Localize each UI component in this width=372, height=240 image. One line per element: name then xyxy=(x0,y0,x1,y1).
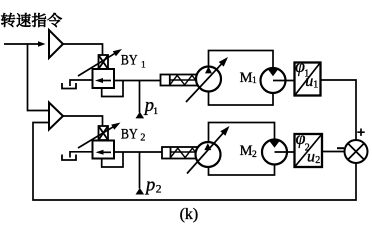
wire branch to amp2 xyxy=(28,43,50,110)
tank BY1 xyxy=(62,83,76,89)
wire A1 output to BY1 solenoid xyxy=(63,44,103,55)
wire BY2 output main line xyxy=(114,151,162,153)
shaft M2 to sensor xyxy=(275,151,295,153)
svg-text:p: p xyxy=(144,175,155,195)
motor M2 xyxy=(262,140,287,165)
sensor phi2/u2 xyxy=(295,134,323,167)
svg-text:1: 1 xyxy=(252,75,257,85)
arrow inside BY2 xyxy=(102,151,112,153)
svg-text:u: u xyxy=(307,149,315,166)
stroking cylinder 1 xyxy=(161,75,198,86)
svg-text:BY: BY xyxy=(121,125,138,142)
svg-text:1: 1 xyxy=(141,61,146,71)
motor M1 xyxy=(261,68,286,93)
svg-text:2: 2 xyxy=(252,150,257,160)
plus sign xyxy=(357,129,364,136)
label BY1 xyxy=(121,51,138,68)
svg-text:M: M xyxy=(240,143,253,159)
svg-text:u: u xyxy=(305,73,313,90)
stroking cylinder 2 xyxy=(162,147,197,159)
spring cylinder 1 xyxy=(170,75,198,84)
pump P2 (variable) xyxy=(196,142,221,167)
summing junction xyxy=(345,140,368,163)
svg-text:2: 2 xyxy=(315,155,320,166)
svg-text:M: M xyxy=(240,70,253,86)
pilot loop under BY1 xyxy=(102,81,123,97)
wire feedback from summer to A2 xyxy=(33,123,356,201)
minus sign xyxy=(337,147,344,149)
amplifier A1 xyxy=(49,30,63,58)
wire sensor1 to summer xyxy=(321,80,357,140)
pilot loop under BY2 xyxy=(102,152,123,167)
variable arrow pump P2 xyxy=(187,132,224,173)
variable arrow pump P1 xyxy=(186,63,223,102)
drain line BY2 xyxy=(70,152,93,158)
svg-text:2: 2 xyxy=(140,132,145,143)
hydraulic loop 2 xyxy=(209,123,275,176)
pump P1 (variable) xyxy=(196,67,221,92)
wire sensor2 to summer xyxy=(322,151,345,153)
wire input command xyxy=(4,43,40,45)
variable arrow BY1 xyxy=(78,53,115,76)
svg-text:(k): (k) xyxy=(180,206,199,223)
variable arrow BY2 xyxy=(78,127,114,148)
hydraulic loop 1 xyxy=(209,51,274,106)
spring cylinder 2 xyxy=(171,148,198,157)
sensor phi1/u1 xyxy=(295,63,321,96)
svg-text:1: 1 xyxy=(153,107,158,117)
solenoid BY1 (square with X) xyxy=(99,55,109,69)
wire BY1 output main line xyxy=(114,80,161,82)
node p1 tap xyxy=(139,81,141,113)
wire A2 output to BY2 solenoid xyxy=(63,116,103,126)
label 转速指令 (speed command) xyxy=(1,13,62,27)
svg-text:BY: BY xyxy=(121,51,138,68)
tank BY2 xyxy=(62,155,76,161)
solenoid BY2 (square with X) xyxy=(99,126,109,140)
arrowhead input xyxy=(38,41,46,47)
drain line BY1 xyxy=(70,80,93,86)
svg-text:1: 1 xyxy=(313,79,318,90)
svg-text:2: 2 xyxy=(156,184,162,196)
valve body BY2 xyxy=(93,141,115,159)
label BY2 xyxy=(121,125,138,142)
node p2 tap xyxy=(139,152,141,188)
arrow inside BY1 xyxy=(101,80,111,82)
shaft M1 to sensor xyxy=(273,80,295,82)
amplifier A2 xyxy=(49,103,63,130)
valve body BY1 xyxy=(93,69,115,88)
